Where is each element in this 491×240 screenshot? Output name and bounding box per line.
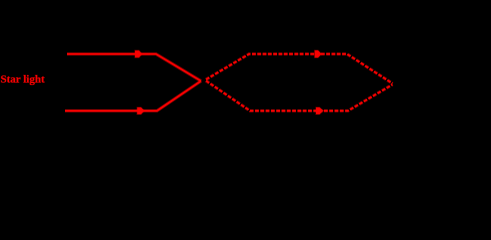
svg-text:Star light: Star light: [1, 74, 45, 86]
wire: top incoming solid ray: [67, 54, 201, 81]
wire: bottom incoming solid ray: [65, 81, 201, 111]
arrowhead on upper dashed ray: [315, 50, 322, 57]
arrowhead on lower dashed ray: [316, 107, 323, 114]
label: Star light: [1, 74, 45, 86]
wire: lower diverging dashed ray: [206, 81, 393, 111]
wire: upper diverging dashed ray: [206, 54, 393, 84]
arrowhead on bottom incoming ray: [137, 107, 144, 114]
arrowhead on top incoming ray: [135, 51, 142, 58]
